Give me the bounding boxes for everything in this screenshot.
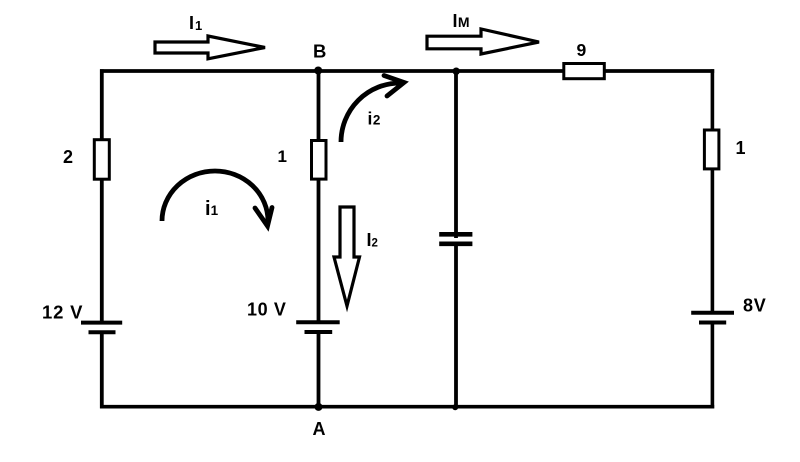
svg-text:IM: IM [453,11,470,31]
battery V3 8V negative plate [699,321,726,325]
resistor R2 value 1 (middle branch) [312,141,327,180]
branch current arrow i2 (curved up-right) [341,83,400,142]
resistor R4 value 1 (right branch) [704,130,719,169]
wire capacitor branch lower [454,243,458,408]
wire top rail (node B rail) [100,69,714,73]
mesh arrow i1 head [255,208,272,227]
resistor R1 value 2 (left branch) [94,140,109,180]
resistor R3 value 9 (top rail) [564,64,605,79]
mesh current arrow i1 (clockwise arc) [162,171,268,221]
capacitor C1 top plate [439,232,472,237]
wire right branch upper (top rail to 8V battery) [711,69,715,312]
svg-text:8V: 8V [743,296,767,316]
wire middle branch upper (node B to 10V battery) [317,69,321,322]
wire middle branch lower (10V battery to node A) [317,332,321,408]
current arrow IM (hollow, pointing right) [427,29,539,54]
svg-text:2: 2 [63,147,73,167]
svg-text:9: 9 [577,40,587,60]
svg-text:A: A [313,419,326,439]
junction dot top of capacitor branch [453,68,460,75]
wire capacitor branch upper [454,69,458,238]
wire left branch upper (top rail to 12V battery) [100,69,104,322]
node A junction dot [315,403,323,411]
svg-text:B: B [313,41,326,62]
branch arrow i2 head [384,76,404,97]
capacitor C1 bottom plate [439,242,472,247]
battery V2 10V negative plate [305,330,333,334]
wire right branch lower (8V battery to bottom rail) [711,323,715,409]
battery V1 12V negative plate [89,330,116,334]
wire bottom rail (node A rail) [100,405,714,409]
junction dot bottom of capacitor branch [452,404,458,410]
battery V3 8V positive plate [691,311,734,315]
battery V2 10V positive plate [296,320,340,324]
svg-text:1: 1 [278,147,287,166]
current arrow I1 (hollow, pointing right) [155,36,265,59]
svg-text:10 V: 10 V [247,300,286,320]
current arrow I2 (hollow, pointing down) [334,207,360,306]
node B junction dot [314,67,322,75]
wire left branch lower (12V battery to bottom rail) [100,333,104,409]
battery V1 12V positive plate [81,321,122,325]
svg-text:1: 1 [736,138,746,158]
svg-text:12 V: 12 V [42,302,83,323]
